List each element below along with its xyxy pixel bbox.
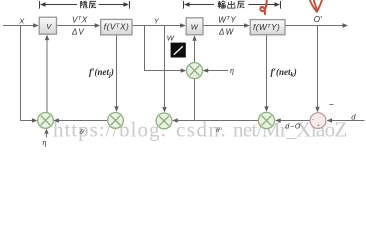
- svg-text:ΔW: ΔW: [218, 27, 235, 36]
- svg-text:−: −: [329, 100, 334, 110]
- svg-text:d−O: d−O: [285, 122, 301, 131]
- svg-text:W: W: [191, 22, 199, 31]
- svg-text:f(WTY): f(WTY): [253, 22, 280, 32]
- svg-text:f′(netj): f′(netj): [89, 67, 114, 79]
- svg-text:WTY: WTY: [218, 15, 236, 24]
- svg-text:W: W: [167, 33, 175, 42]
- svg-text:X: X: [18, 16, 25, 25]
- svg-text:VTX: VTX: [72, 15, 88, 24]
- svg-text:ΔV: ΔV: [71, 27, 85, 36]
- svg-text:O′: O′: [314, 15, 322, 24]
- svg-text:η: η: [230, 66, 234, 75]
- svg-text:f′(netk): f′(netk): [271, 67, 297, 79]
- svg-text:Y: Y: [154, 16, 160, 25]
- svg-text:η: η: [43, 138, 47, 147]
